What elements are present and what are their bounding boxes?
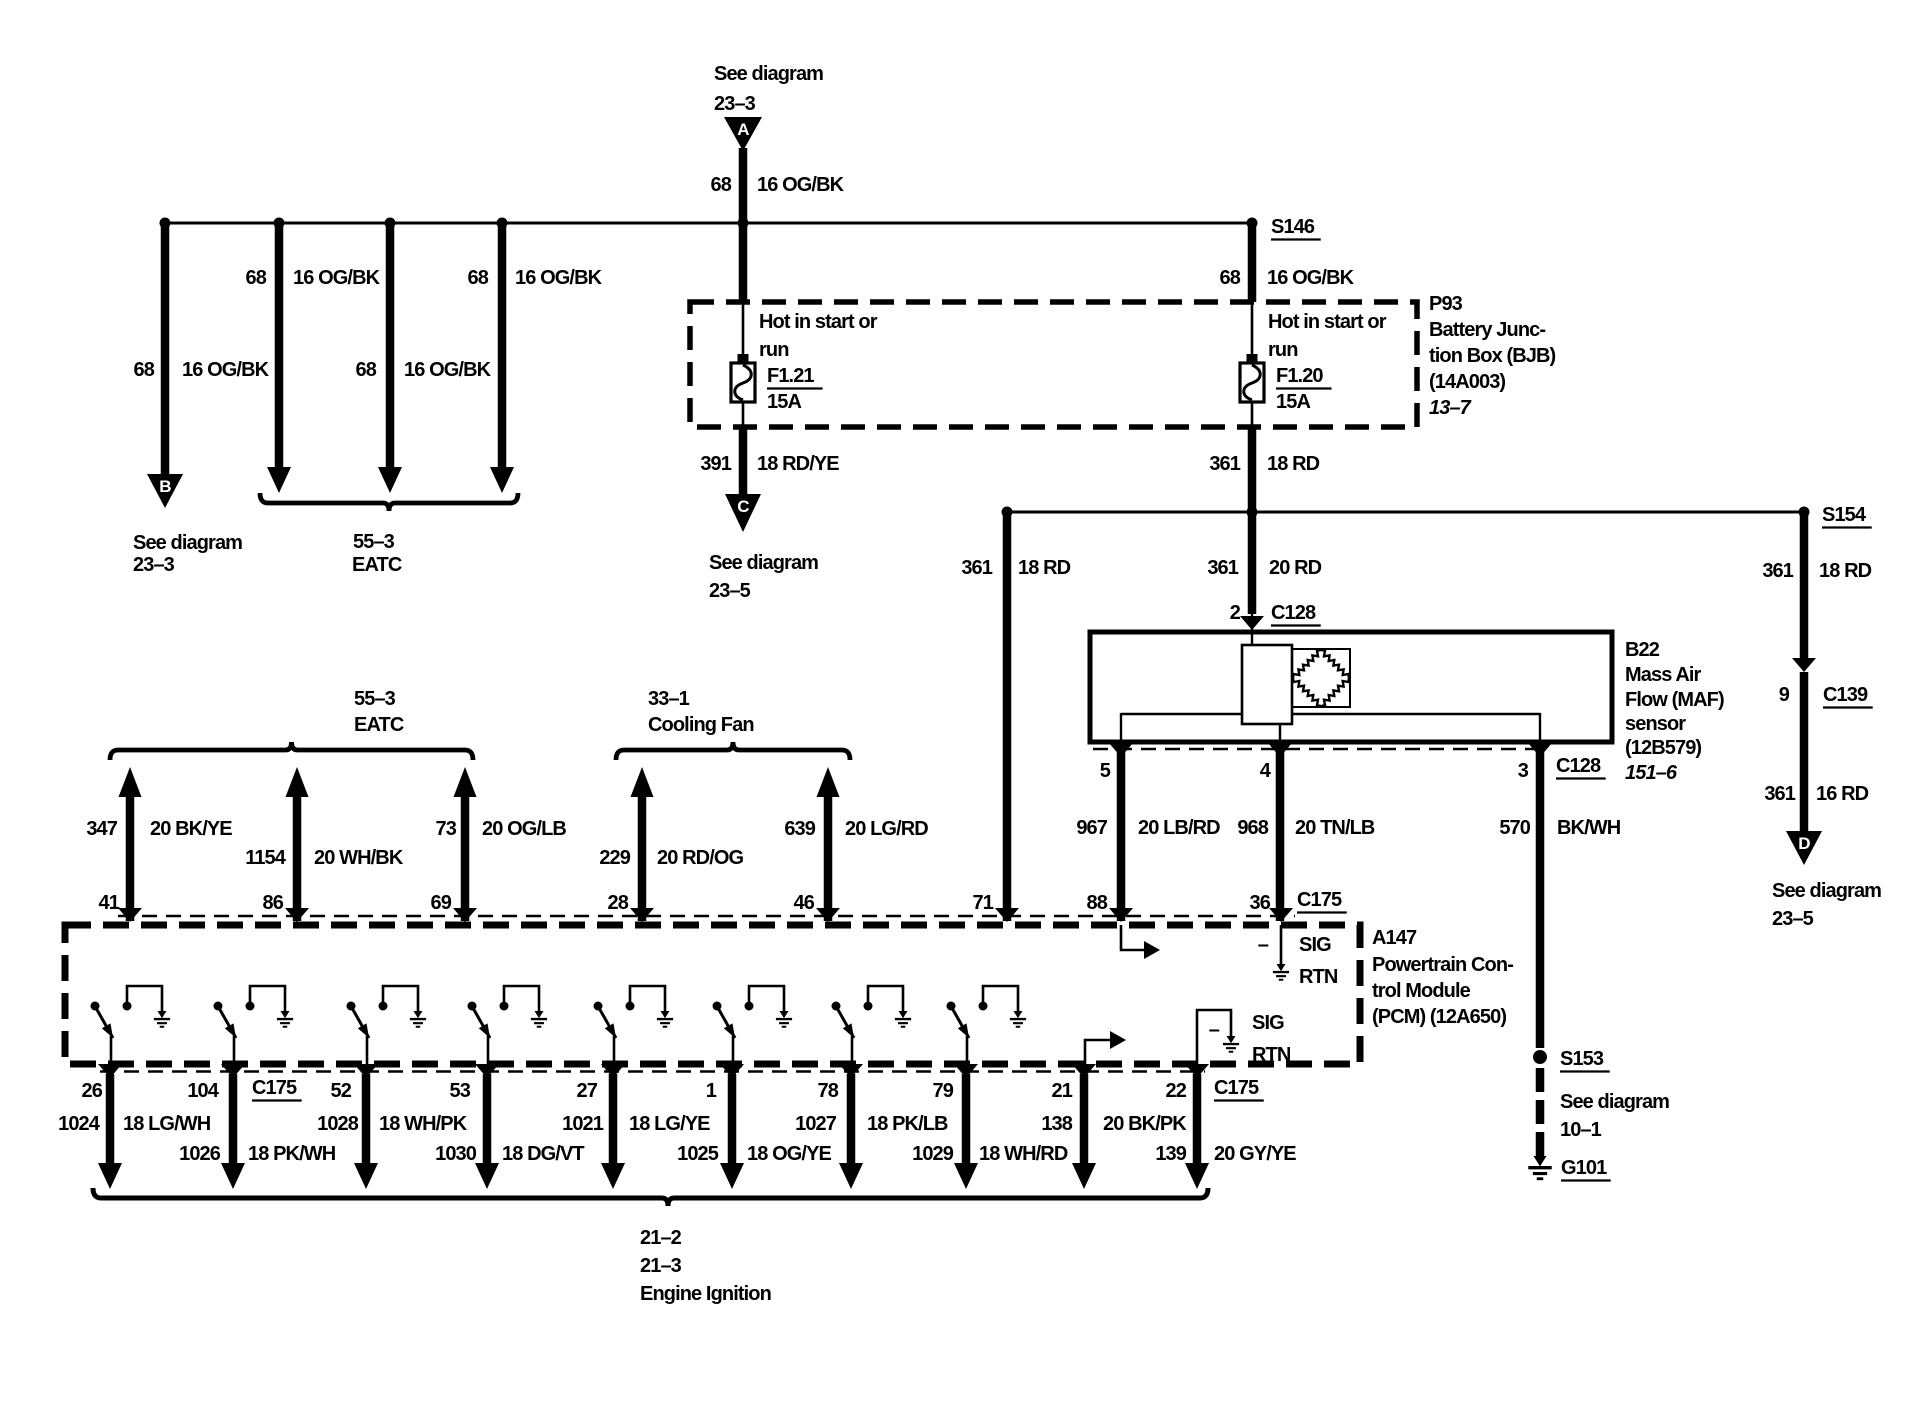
svg-text:68: 68	[134, 359, 155, 381]
svg-text:16 RD: 16 RD	[1816, 783, 1869, 805]
svg-text:RTN: RTN	[1252, 1044, 1291, 1066]
svg-text:Battery Junc-: Battery Junc-	[1429, 319, 1545, 341]
svg-text:18 OG/YE: 18 OG/YE	[747, 1143, 832, 1165]
svg-text:RTN: RTN	[1299, 966, 1338, 988]
svg-text:1029: 1029	[912, 1143, 954, 1165]
svg-text:27: 27	[577, 1080, 598, 1102]
svg-text:16 OG/BK: 16 OG/BK	[293, 267, 381, 289]
svg-text:33–1: 33–1	[648, 688, 690, 710]
svg-text:347: 347	[86, 818, 117, 840]
svg-text:18 PK/WH: 18 PK/WH	[248, 1143, 336, 1165]
svg-text:68: 68	[356, 359, 377, 381]
svg-text:20 TN/LB: 20 TN/LB	[1295, 817, 1375, 839]
svg-text:5: 5	[1100, 760, 1111, 782]
svg-text:A147: A147	[1372, 927, 1417, 949]
svg-text:138: 138	[1041, 1113, 1072, 1135]
svg-text:D: D	[1798, 834, 1810, 853]
svg-text:23–5: 23–5	[1772, 908, 1814, 930]
svg-text:23–5: 23–5	[709, 580, 751, 602]
svg-text:See diagram: See diagram	[714, 63, 823, 85]
svg-text:55–3: 55–3	[354, 688, 396, 710]
svg-text:F1.21: F1.21	[767, 365, 814, 387]
svg-text:18 WH/PK: 18 WH/PK	[379, 1113, 468, 1135]
svg-text:71: 71	[973, 892, 994, 914]
svg-text:18 LG/WH: 18 LG/WH	[123, 1113, 211, 1135]
svg-text:See diagram: See diagram	[1560, 1091, 1669, 1113]
svg-text:18 LG/YE: 18 LG/YE	[629, 1113, 710, 1135]
svg-text:C175: C175	[1214, 1077, 1259, 1099]
svg-text:36: 36	[1250, 892, 1271, 914]
svg-text:Hot in start or: Hot in start or	[1268, 311, 1387, 333]
svg-text:20 OG/LB: 20 OG/LB	[482, 818, 566, 840]
svg-text:41: 41	[99, 892, 120, 914]
svg-text:Cooling Fan: Cooling Fan	[648, 714, 754, 736]
svg-text:SIG: SIG	[1299, 934, 1331, 956]
svg-text:21–2: 21–2	[640, 1227, 682, 1249]
svg-text:55–3: 55–3	[353, 531, 395, 553]
svg-text:22: 22	[1166, 1080, 1187, 1102]
svg-text:–: –	[1209, 1019, 1220, 1041]
svg-text:16 OG/BK: 16 OG/BK	[1267, 267, 1355, 289]
svg-text:Engine Ignition: Engine Ignition	[640, 1283, 771, 1305]
svg-text:18 RD/YE: 18 RD/YE	[757, 453, 839, 475]
svg-text:S146: S146	[1271, 216, 1315, 238]
svg-text:20 BK/YE: 20 BK/YE	[150, 818, 232, 840]
svg-text:570: 570	[1499, 817, 1530, 839]
svg-text:C128: C128	[1556, 755, 1601, 777]
svg-text:S153: S153	[1560, 1048, 1604, 1070]
svg-text:SIG: SIG	[1252, 1012, 1284, 1034]
svg-text:78: 78	[818, 1080, 839, 1102]
svg-text:18 RD: 18 RD	[1018, 557, 1071, 579]
svg-text:S154: S154	[1822, 504, 1867, 526]
svg-text:EATC: EATC	[352, 554, 402, 576]
svg-text:68: 68	[246, 267, 267, 289]
svg-text:16 OG/BK: 16 OG/BK	[404, 359, 492, 381]
svg-text:BK/WH: BK/WH	[1557, 817, 1621, 839]
svg-text:18 WH/RD: 18 WH/RD	[979, 1143, 1068, 1165]
svg-text:P93: P93	[1429, 293, 1463, 315]
svg-text:20 BK/PK: 20 BK/PK	[1103, 1113, 1187, 1135]
svg-text:23–3: 23–3	[133, 554, 175, 576]
svg-text:361: 361	[1764, 783, 1795, 805]
svg-text:1026: 1026	[179, 1143, 221, 1165]
svg-text:2: 2	[1230, 602, 1241, 624]
svg-text:B: B	[159, 477, 171, 496]
svg-text:See diagram: See diagram	[133, 532, 242, 554]
svg-text:C175: C175	[1297, 889, 1342, 911]
svg-text:run: run	[1268, 339, 1298, 361]
svg-text:run: run	[759, 339, 789, 361]
svg-text:20 RD: 20 RD	[1269, 557, 1322, 579]
svg-text:52: 52	[331, 1080, 352, 1102]
svg-text:88: 88	[1087, 892, 1108, 914]
svg-text:151–6: 151–6	[1625, 762, 1678, 784]
svg-text:1030: 1030	[435, 1143, 477, 1165]
svg-text:1025: 1025	[677, 1143, 719, 1165]
svg-text:18 RD: 18 RD	[1267, 453, 1320, 475]
svg-text:F1.20: F1.20	[1276, 365, 1323, 387]
svg-text:4: 4	[1260, 760, 1272, 782]
svg-text:–: –	[1258, 934, 1269, 956]
svg-text:(12B579): (12B579)	[1625, 737, 1701, 759]
svg-text:See diagram: See diagram	[709, 552, 818, 574]
svg-text:trol Module: trol Module	[1372, 980, 1471, 1002]
svg-text:20 RD/OG: 20 RD/OG	[657, 847, 744, 869]
svg-text:13–7: 13–7	[1429, 397, 1472, 419]
svg-text:10–1: 10–1	[1560, 1119, 1602, 1141]
svg-text:21–3: 21–3	[640, 1255, 682, 1277]
svg-text:69: 69	[431, 892, 452, 914]
svg-text:1027: 1027	[795, 1113, 837, 1135]
svg-text:Hot in start or: Hot in start or	[759, 311, 878, 333]
svg-text:20 GY/YE: 20 GY/YE	[1214, 1143, 1296, 1165]
svg-text:18 DG/VT: 18 DG/VT	[502, 1143, 584, 1165]
svg-text:Powertrain Con-: Powertrain Con-	[1372, 954, 1513, 976]
svg-text:1024: 1024	[58, 1113, 101, 1135]
svg-text:9: 9	[1779, 684, 1790, 706]
svg-text:28: 28	[608, 892, 629, 914]
svg-text:15A: 15A	[1276, 391, 1310, 413]
svg-text:Flow (MAF): Flow (MAF)	[1625, 689, 1724, 711]
svg-text:68: 68	[711, 174, 732, 196]
svg-text:1028: 1028	[317, 1113, 359, 1135]
svg-text:68: 68	[468, 267, 489, 289]
svg-text:EATC: EATC	[354, 714, 404, 736]
svg-text:16 OG/BK: 16 OG/BK	[182, 359, 270, 381]
svg-text:tion Box (BJB): tion Box (BJB)	[1429, 345, 1556, 367]
svg-text:G101: G101	[1561, 1157, 1607, 1179]
svg-text:C175: C175	[252, 1077, 297, 1099]
svg-text:(14A003): (14A003)	[1429, 371, 1505, 393]
svg-text:968: 968	[1237, 817, 1268, 839]
svg-text:C139: C139	[1823, 684, 1868, 706]
svg-text:23–3: 23–3	[714, 93, 756, 115]
svg-text:361: 361	[1207, 557, 1238, 579]
svg-text:46: 46	[794, 892, 815, 914]
svg-text:20 LG/RD: 20 LG/RD	[845, 818, 928, 840]
svg-text:1154: 1154	[245, 847, 287, 869]
svg-text:3: 3	[1518, 760, 1529, 782]
svg-text:(PCM) (12A650): (PCM) (12A650)	[1372, 1006, 1506, 1028]
svg-text:139: 139	[1155, 1143, 1186, 1165]
svg-text:391: 391	[700, 453, 731, 475]
svg-text:639: 639	[784, 818, 815, 840]
svg-text:sensor: sensor	[1625, 713, 1686, 735]
svg-text:26: 26	[82, 1080, 103, 1102]
svg-text:A: A	[737, 120, 749, 139]
svg-text:53: 53	[450, 1080, 471, 1102]
svg-text:See diagram: See diagram	[1772, 880, 1881, 902]
svg-text:1: 1	[706, 1080, 717, 1102]
svg-text:16 OG/BK: 16 OG/BK	[515, 267, 603, 289]
svg-text:C128: C128	[1271, 602, 1316, 624]
svg-text:Mass Air: Mass Air	[1625, 664, 1702, 686]
svg-text:20 LB/RD: 20 LB/RD	[1138, 817, 1220, 839]
svg-text:967: 967	[1076, 817, 1107, 839]
svg-text:C: C	[737, 497, 749, 516]
svg-text:361: 361	[1209, 453, 1240, 475]
svg-text:1021: 1021	[562, 1113, 604, 1135]
svg-text:229: 229	[599, 847, 630, 869]
svg-text:68: 68	[1220, 267, 1241, 289]
svg-text:20 WH/BK: 20 WH/BK	[314, 847, 404, 869]
svg-text:18 PK/LB: 18 PK/LB	[867, 1113, 948, 1135]
svg-text:73: 73	[436, 818, 457, 840]
svg-text:361: 361	[1762, 560, 1793, 582]
svg-text:18 RD: 18 RD	[1819, 560, 1872, 582]
svg-text:86: 86	[263, 892, 284, 914]
svg-text:16 OG/BK: 16 OG/BK	[757, 174, 845, 196]
svg-text:15A: 15A	[767, 391, 801, 413]
svg-text:21: 21	[1052, 1080, 1073, 1102]
svg-text:79: 79	[933, 1080, 954, 1102]
svg-text:104: 104	[187, 1080, 219, 1102]
svg-text:B22: B22	[1625, 639, 1660, 661]
svg-text:361: 361	[961, 557, 992, 579]
